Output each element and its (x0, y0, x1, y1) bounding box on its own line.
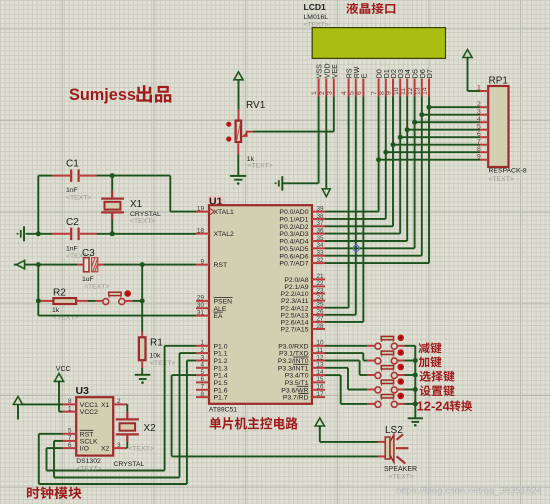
svg-text:P2.5/A13: P2.5/A13 (281, 312, 309, 319)
svg-text:P0.4/AD4: P0.4/AD4 (279, 239, 308, 246)
svg-text:P0.7/AD7: P0.7/AD7 (279, 261, 308, 268)
svg-text:<TEXT>: <TEXT> (84, 283, 109, 290)
label 时钟模块 (27, 487, 82, 499)
svg-text:EA: EA (214, 313, 224, 320)
svg-text:<TEXT>: <TEXT> (66, 195, 91, 202)
capacitor C2 reference label (66, 217, 79, 228)
resistor pack RP1 body (488, 86, 508, 167)
svg-text:SCLK: SCLK (80, 439, 98, 446)
svg-text:X1: X1 (130, 199, 143, 210)
svg-text:https://blog.csdn.net/qq_38351: https://blog.csdn.net/qq_38351824 (396, 485, 542, 496)
speaker sound waves (396, 434, 409, 463)
wire C2 right to U1 pin 18 XTAL2 (97, 233, 197, 235)
svg-text:SPEAKER: SPEAKER (384, 466, 417, 473)
svg-text:15: 15 (317, 376, 325, 383)
wire VCC to U3 pin 1 VCC2 (59, 381, 63, 411)
svg-text:1uF: 1uF (82, 276, 94, 283)
svg-text:D0: D0 (377, 69, 384, 78)
svg-text:5: 5 (477, 123, 481, 130)
svg-text:P1.5: P1.5 (214, 380, 228, 387)
svg-text:P2.4/A12: P2.4/A12 (281, 305, 309, 312)
svg-text:34: 34 (317, 242, 325, 249)
wire VDD net down from LCD pin 2 (325, 97, 327, 190)
svg-text:2: 2 (117, 398, 121, 405)
LCD1 part value LM016L (304, 14, 329, 21)
svg-text:6: 6 (356, 91, 363, 95)
svg-text:3: 3 (200, 354, 204, 361)
wire EA row to U1 pin 31 (38, 315, 196, 317)
svg-text:36: 36 (317, 227, 325, 234)
svg-text:VEE: VEE (332, 64, 339, 78)
svg-text:12: 12 (317, 354, 325, 361)
svg-text:P2.2/A10: P2.2/A10 (281, 291, 309, 298)
R1 value 10k (150, 352, 162, 359)
wire P3.3 to button 4 (325, 368, 367, 390)
svg-text:32: 32 (317, 257, 325, 264)
svg-text:2: 2 (200, 347, 204, 354)
svg-text:1nF: 1nF (66, 187, 78, 194)
RV1 bottom lead (237, 143, 239, 154)
wire VEE net to RV1 wiper (253, 131, 334, 133)
svg-text:30: 30 (197, 302, 205, 309)
title label 液晶接口 (346, 3, 395, 14)
svg-text:6: 6 (68, 442, 72, 449)
wire R2 to reset button (87, 300, 102, 302)
svg-text:X1: X1 (101, 402, 110, 409)
svg-text:X2: X2 (101, 446, 110, 453)
label 单片机主控电路 (210, 417, 298, 430)
svg-text:23: 23 (317, 287, 325, 294)
svg-text:17: 17 (317, 391, 325, 398)
svg-text:D3: D3 (398, 69, 405, 78)
svg-text:P2.7/A15: P2.7/A15 (281, 327, 309, 334)
capacitor C1 (52, 169, 97, 182)
power terminal arrow VCC above U3 (54, 373, 63, 385)
svg-text:D2: D2 (391, 69, 398, 78)
svg-text:P0.0/AD0: P0.0/AD0 (279, 209, 308, 216)
microcontroller U1 AT89C51 body (209, 205, 312, 404)
svg-text:5: 5 (200, 369, 204, 376)
svg-text:XTAL2: XTAL2 (214, 231, 234, 238)
svg-text:3: 3 (117, 442, 121, 449)
X2 property placeholder (129, 446, 154, 453)
svg-text:P2.0/A8: P2.0/A8 (284, 277, 308, 284)
svg-text:12-24: 12-24 (417, 398, 451, 413)
svg-text:1: 1 (200, 340, 204, 347)
speaker LS2 symbol (385, 435, 394, 463)
svg-text:25: 25 (317, 302, 325, 309)
svg-text:P1.2: P1.2 (214, 358, 228, 365)
RV1 terminal dots (226, 122, 231, 142)
svg-text:RP1: RP1 (489, 76, 509, 87)
svg-text:7: 7 (371, 91, 378, 95)
LCD1 display body LM016L (312, 28, 445, 59)
svg-text:D1: D1 (384, 69, 391, 78)
U1 left pin stubs (196, 212, 209, 398)
wire P3.4 to button 5 (325, 375, 367, 404)
svg-text:P2.6/A14: P2.6/A14 (281, 320, 309, 327)
wire VSS net down from LCD pin 1 (318, 97, 320, 184)
svg-text:24: 24 (317, 294, 325, 301)
svg-text:XTAL1: XTAL1 (214, 209, 234, 216)
wire button 3 to common rail (405, 374, 416, 376)
C1 value 1nF (66, 187, 78, 194)
svg-text:E: E (361, 73, 368, 78)
U1 right pin numbers (317, 205, 325, 398)
svg-text:33: 33 (317, 250, 325, 257)
wire P1.1 to DS1302 SCLK (54, 353, 196, 477)
wire vertical x142 RST to R1 (141, 265, 143, 332)
author label Sumjess出品 (69, 85, 171, 104)
resistor R1 reference label (150, 337, 163, 348)
svg-text:4: 4 (341, 91, 348, 95)
U1 left pin names (210, 209, 234, 402)
svg-text:13: 13 (317, 362, 325, 369)
svg-text:<TEXT>: <TEXT> (130, 218, 155, 225)
svg-text:RST: RST (80, 431, 94, 438)
RP1 reference label (489, 76, 509, 87)
svg-text:10: 10 (317, 340, 325, 347)
push button plus key 加键 (367, 349, 405, 364)
LS2 reference label (385, 425, 403, 436)
capacitor C3 reference label (82, 248, 95, 259)
svg-text:18: 18 (197, 227, 205, 234)
push button 12-24 toggle key (367, 393, 405, 408)
svg-text:LCD1: LCD1 (304, 2, 326, 12)
svg-text:P3.4/T0: P3.4/T0 (285, 373, 309, 380)
svg-text:AT89C51: AT89C51 (209, 406, 237, 413)
crystal X1 (101, 176, 124, 234)
svg-text:6: 6 (477, 131, 481, 138)
svg-text:14: 14 (317, 369, 325, 376)
X1 value CRYSTAL (130, 211, 161, 218)
LCD1 property placeholder (304, 22, 329, 29)
svg-text:28: 28 (317, 323, 325, 330)
svg-text:D7: D7 (427, 69, 434, 78)
svg-text:7: 7 (477, 138, 481, 145)
node junction reset button right (140, 298, 145, 303)
wire XTAL1 into U1 pin 19 (170, 211, 196, 213)
svg-text:R2: R2 (53, 288, 66, 299)
crystal X2 (116, 412, 139, 442)
U3 pin names (80, 402, 110, 453)
LCD1 pin stubs (319, 79, 429, 97)
capacitor C1 reference label (66, 159, 79, 170)
power terminal arrow above RV1 (234, 72, 243, 84)
wire C1 right to XTAL1 corner (97, 175, 171, 177)
svg-text:11: 11 (317, 347, 324, 354)
power-down terminal arrow for VDD (322, 189, 330, 197)
watermark (396, 485, 542, 496)
svg-text:RW: RW (354, 66, 361, 78)
key label 设置键 (420, 385, 455, 396)
svg-text:P1.0: P1.0 (214, 343, 228, 350)
wire C1 left rail down to C2 rail (37, 176, 39, 234)
svg-text:22: 22 (317, 280, 325, 287)
svg-text:5: 5 (68, 428, 72, 435)
wire reset button to x142 (125, 300, 142, 302)
LS2 property placeholder (389, 474, 414, 481)
X2 value CRYSTAL (114, 461, 145, 468)
wire D6 net: LCD D6 to U1 P0.6 and RP1 pin 3 with junction (325, 97, 480, 256)
svg-text:I/O: I/O (80, 446, 89, 453)
svg-text:6: 6 (200, 376, 204, 383)
svg-text:DS1302: DS1302 (76, 458, 101, 465)
svg-text:C2: C2 (66, 217, 79, 228)
node junction X1 bottom (110, 231, 115, 236)
svg-text:<TEXT>: <TEXT> (489, 176, 514, 183)
svg-text:LM016L: LM016L (304, 14, 329, 21)
RP1 pin stubs 1-9 (480, 91, 488, 160)
power terminal arrow for RP1 pin1 (463, 50, 472, 62)
node junctions on buttons common rail (413, 358, 418, 406)
wire P1.2 to DS1302 RST (39, 361, 196, 485)
svg-text:RS: RS (347, 68, 354, 78)
svg-text:D4: D4 (405, 69, 412, 78)
svg-text:P1.3: P1.3 (214, 365, 228, 372)
svg-text:37: 37 (317, 220, 325, 227)
svg-text:4: 4 (477, 116, 481, 123)
X1 property placeholder (130, 218, 155, 225)
svg-text:P2.3/A11: P2.3/A11 (281, 298, 309, 305)
svg-text:P0.6/AD6: P0.6/AD6 (279, 253, 308, 260)
wire button 1 to common rail (405, 345, 416, 347)
wire VSS net to ground terminal (283, 182, 319, 184)
svg-text:D5: D5 (413, 69, 420, 78)
wire power to speaker top terminal (320, 426, 386, 442)
C3 value 1uF (82, 276, 94, 283)
U3 part value DS1302 (76, 458, 101, 465)
svg-text:CRYSTAL: CRYSTAL (114, 461, 145, 468)
U1 left pin numbers (197, 205, 205, 398)
node junction C1-C2 rail corner (36, 231, 41, 236)
wire D7 net: LCD D7 to U1 P0.7 and RP1 pin 2 with junction (325, 97, 480, 264)
push button select key 选择键 (367, 364, 405, 379)
RP1 pin numbers 1-9 (477, 85, 481, 161)
svg-text:19: 19 (197, 205, 205, 212)
VCC label (56, 366, 71, 373)
svg-text:X2: X2 (144, 423, 157, 434)
svg-text:10k: 10k (150, 352, 162, 359)
wire D1 net: LCD D1 to U1 P0.1 and RP1 pin 8 with junction (325, 97, 480, 219)
wire P1.4 to speaker (172, 375, 386, 456)
svg-text:RST: RST (214, 262, 228, 269)
svg-text:8: 8 (477, 146, 481, 153)
wire P3.1 to button 2 (325, 353, 367, 360)
svg-text:2: 2 (319, 91, 326, 95)
potentiometer RV1 body (236, 110, 242, 143)
svg-text:29: 29 (197, 295, 205, 302)
svg-text:D6: D6 (420, 69, 427, 78)
svg-text:<TEXT>: <TEXT> (248, 163, 273, 170)
svg-text:P0.5/AD5: P0.5/AD5 (279, 246, 308, 253)
svg-text:7: 7 (68, 435, 72, 442)
wire P3.0 to button 1 (325, 345, 367, 347)
RV1 reference label (246, 100, 266, 111)
wire D3 net: LCD D3 to U1 P0.3 and RP1 pin 6 with junction (325, 97, 480, 234)
U3 reference label (76, 385, 90, 397)
wire vertical x38 RST to EA (37, 265, 39, 316)
svg-text:P1.7: P1.7 (214, 395, 228, 402)
svg-text:VCC: VCC (56, 366, 71, 373)
wire power arrow to U3 pin 8 VCC1 (21, 403, 63, 405)
push button reset (103, 290, 131, 304)
LCD1 pin numbers 1-14 (311, 87, 428, 95)
svg-text:<TEXT>: <TEXT> (389, 474, 414, 481)
svg-text:12: 12 (407, 87, 414, 95)
ground symbol under buttons (408, 418, 423, 426)
wire C3 to U1 pin 9 RST (104, 264, 197, 266)
wire button 5 to common rail (405, 403, 416, 405)
svg-text:2: 2 (477, 101, 481, 108)
capacitor C3 polarized (77, 258, 104, 272)
svg-text:P1.6: P1.6 (214, 387, 228, 394)
svg-text:21: 21 (317, 273, 325, 280)
svg-text:39: 39 (317, 205, 325, 212)
key label 加键 (419, 356, 442, 367)
C1 property placeholder (66, 195, 91, 202)
svg-text:RESPACK-8: RESPACK-8 (489, 167, 527, 174)
key label 选择键 (420, 371, 455, 382)
svg-text:R1: R1 (150, 337, 163, 348)
svg-text:<TEXT>: <TEXT> (150, 360, 175, 367)
svg-text:26: 26 (317, 309, 325, 316)
wire D4 net: LCD D4 to U1 P0.4 and RP1 pin 5 with junction (325, 97, 480, 242)
push button minus key 减键 (367, 335, 405, 350)
U3 property placeholder (76, 466, 101, 473)
wire RST rail left (24, 264, 77, 266)
svg-text:P3.7/RD: P3.7/RD (283, 395, 309, 402)
svg-text:27: 27 (317, 316, 325, 323)
RP1 value RESPACK-8 (489, 167, 527, 174)
RV1 wiper arrow (241, 132, 253, 137)
wire R1 to ground (141, 368, 143, 375)
power terminal arrow left of U3 (13, 397, 22, 420)
ground symbol under R1 (135, 375, 151, 384)
key label 12-24转换 (417, 398, 473, 413)
ground terminal bar for VSS (275, 176, 283, 190)
svg-text:16: 16 (317, 384, 325, 391)
node junction R2 left (36, 298, 41, 303)
wire VEE net down from LCD pin 3 (333, 97, 335, 132)
wire P1.0 to DS1302 I/O (47, 346, 197, 471)
U1 right pin stubs (312, 212, 325, 398)
svg-text:CRYSTAL: CRYSTAL (130, 211, 161, 218)
R2 property placeholder (53, 314, 78, 321)
svg-text:P1.1: P1.1 (214, 351, 228, 358)
svg-text:P0.1/AD1: P0.1/AD1 (279, 217, 308, 224)
U3 pin stubs (63, 404, 127, 448)
svg-text:35: 35 (317, 235, 325, 242)
node junction RST rail at x142 (140, 262, 145, 267)
svg-text:1: 1 (477, 85, 481, 92)
wire button 2 to common rail (405, 360, 416, 362)
ground terminal bar left of C2 (17, 226, 25, 241)
svg-text:<TEXT>: <TEXT> (129, 446, 154, 453)
svg-text:9: 9 (200, 258, 204, 265)
svg-text:3: 3 (326, 91, 333, 95)
capacitor C2 (52, 228, 97, 241)
wire U3 X1 pin to crystal X2 (126, 404, 129, 412)
svg-text:P3.0/RXD: P3.0/RXD (278, 343, 308, 350)
wire E net to U1 P2.6 (325, 97, 363, 322)
svg-text:3: 3 (477, 108, 481, 115)
resistor R2 reference label (53, 288, 66, 299)
svg-text:P0.3/AD3: P0.3/AD3 (279, 231, 308, 238)
wire button 4 to common rail (405, 389, 416, 391)
node junction RST rail at x38 (36, 262, 41, 267)
wire P3.2 to button 3 (325, 361, 367, 376)
node marker blue on P0.5 wire (353, 245, 359, 251)
node junction X1 top (110, 173, 115, 178)
svg-text:8: 8 (200, 391, 204, 398)
svg-text:VCC1: VCC1 (80, 402, 98, 409)
svg-text:1: 1 (311, 91, 318, 95)
svg-text:P1.4: P1.4 (214, 373, 228, 380)
X2 reference label (144, 423, 157, 434)
wire RS net to U1 P2.4 (325, 97, 349, 308)
wire RV1 to ground (237, 154, 239, 176)
svg-text:U3: U3 (76, 385, 90, 397)
svg-text:C1: C1 (66, 159, 79, 170)
wire D2 net: LCD D2 to U1 P0.2 and RP1 pin 7 with junction (325, 97, 480, 227)
wire power to RV1 top (238, 79, 240, 109)
clock chip U3 DS1302 body (76, 397, 113, 455)
wire D5 net: LCD D5 to U1 P0.5 and RP1 pin 4 with junction (325, 97, 480, 249)
resistor R2 (41, 298, 88, 304)
svg-text:38: 38 (317, 213, 325, 220)
op U1 label highlight (208, 195, 225, 207)
svg-text:P0.2/AD2: P0.2/AD2 (279, 224, 308, 231)
key label 减键 (419, 342, 442, 353)
wire C1 left segment (38, 175, 52, 177)
RV1 value 1k (247, 156, 255, 163)
svg-text:PSEN: PSEN (214, 299, 233, 306)
svg-text:31: 31 (197, 309, 205, 316)
R2 value 1k (52, 307, 60, 314)
svg-text:1nF: 1nF (66, 246, 78, 253)
LCD1 pin names VSS VDD VEE RS RW E D0-D7 (317, 63, 434, 78)
wire XTAL1 vertical (169, 176, 171, 212)
wire RW net to U1 P2.5 (325, 97, 356, 315)
C2 value 1nF (66, 246, 78, 253)
RP1 property placeholder (489, 176, 514, 183)
U1 part value AT89C51 (209, 406, 237, 413)
svg-text:VSS: VSS (317, 64, 324, 78)
push button set key 设置键 (367, 378, 405, 393)
svg-text:Sumjess: Sumjess (69, 86, 136, 104)
svg-text:8: 8 (68, 398, 72, 405)
U1 right pin names (278, 209, 309, 402)
LS2 part value SPEAKER (384, 466, 417, 473)
ground symbol under RV1 (230, 176, 246, 185)
wire C2 left segment (26, 233, 52, 235)
svg-text:1: 1 (68, 405, 72, 412)
wire RP1 pin 1 to power (468, 58, 481, 92)
RV1 property placeholder (248, 163, 273, 170)
X1 reference label (130, 199, 143, 210)
svg-text:VCC2: VCC2 (80, 409, 98, 416)
resistor R1 (139, 332, 146, 369)
wire R2 row left (38, 300, 41, 302)
LCD module LCD1 reference label (304, 2, 326, 12)
svg-text:P3.3/INT1: P3.3/INT1 (278, 365, 309, 372)
svg-text:<TEXT>: <TEXT> (76, 466, 101, 473)
svg-text:9: 9 (477, 153, 481, 160)
svg-text:1k: 1k (52, 307, 60, 314)
wire D0 net: LCD D0 to U1 P0.0 and RP1 pin 9 with junction (325, 97, 480, 212)
R1 property placeholder (150, 360, 175, 367)
